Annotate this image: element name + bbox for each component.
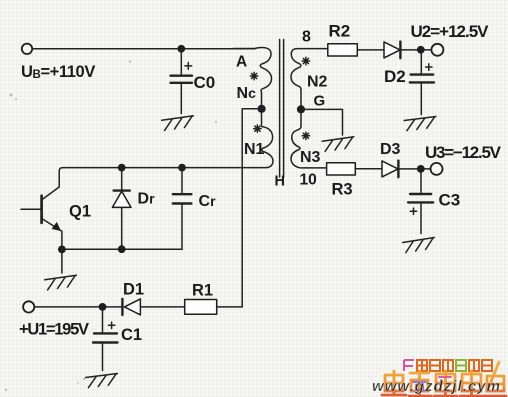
svg-text:D1: D1 (123, 281, 144, 299)
polarity mark N1 (254, 125, 261, 132)
node C1 tap (99, 303, 107, 311)
svg-text:C0: C0 (194, 73, 216, 92)
node U2 (417, 46, 425, 54)
svg-text:N2: N2 (307, 74, 328, 91)
svg-text:C1: C1 (121, 326, 142, 344)
terminal UB input (22, 44, 32, 54)
winding N1 (262, 113, 274, 168)
ground C1 (86, 374, 119, 388)
capacitor C2 (410, 54, 434, 115)
wire U1 to D1 (34, 306, 122, 308)
svg-text:U3=−12.5V: U3=−12.5V (425, 143, 502, 162)
watermark (372, 360, 506, 396)
wire emitter to ground (61, 249, 63, 273)
node secondary junction G (297, 105, 305, 113)
polarity mark N2 (302, 57, 309, 64)
wire D3 to terminal (398, 168, 430, 170)
node Cr top (178, 164, 186, 172)
capacitor C3 (408, 173, 460, 234)
ground C3 (403, 237, 436, 252)
wire top rail (32, 48, 255, 50)
svg-text:U2=+12.5V: U2=+12.5V (411, 22, 490, 41)
node primary junction (258, 105, 266, 113)
wire D1 to R1 (140, 306, 184, 308)
ground C2 (404, 117, 437, 131)
svg-text:R1: R1 (192, 282, 213, 300)
resistor R3 (327, 163, 356, 175)
resistor R2 (328, 44, 358, 56)
svg-text:H: H (275, 174, 285, 190)
ground G (322, 137, 355, 152)
wire collector rail (63, 167, 266, 169)
terminal U2 (431, 44, 443, 56)
svg-text:Q1: Q1 (69, 203, 91, 221)
diode Dr (112, 168, 155, 250)
capacitor Cr (173, 168, 216, 250)
node U3 (417, 165, 425, 173)
svg-text:10: 10 (300, 172, 317, 189)
paper speckles (5, 60, 217, 391)
wire D2 to terminal (400, 49, 431, 51)
wire bottom rail (62, 248, 182, 250)
svg-text:Cr: Cr (199, 193, 217, 210)
svg-text:A: A (236, 54, 247, 71)
ground C0 (162, 116, 195, 131)
terminal U1 input (23, 301, 34, 312)
svg-text:www.gzdzjl.cym: www.gzdzjl.cym (372, 378, 500, 395)
capacitor C1 (93, 311, 142, 371)
node emitter (58, 246, 66, 254)
capacitor C0 (171, 52, 216, 114)
resistor R1 (185, 300, 217, 315)
svg-text:R2: R2 (329, 22, 351, 41)
polarity mark Nc (250, 72, 257, 79)
svg-text:N3: N3 (300, 149, 321, 166)
winding N3 (291, 114, 327, 168)
svg-text:N1: N1 (244, 141, 265, 158)
polarity mark N3 (302, 132, 309, 139)
node Dr top (118, 164, 126, 172)
svg-text:G: G (314, 93, 326, 110)
svg-text:R3: R3 (332, 181, 353, 199)
winding Nc (233, 47, 272, 105)
winding N2 (291, 49, 328, 106)
terminal U3 (431, 163, 443, 175)
svg-text:8: 8 (302, 29, 311, 46)
wire step from dot to feedback column (242, 109, 261, 307)
wire G to ground (305, 109, 343, 135)
diode D1 (121, 299, 123, 315)
svg-text:+U1=195V: +U1=195V (19, 321, 89, 339)
svg-text:UB=+110V: UB=+110V (21, 63, 95, 81)
diode D2 (384, 42, 400, 58)
svg-text:D3: D3 (380, 141, 401, 158)
wire R3 to D3 (355, 168, 382, 170)
wire R1 to feedback column (217, 306, 243, 308)
node junction C0 tap (177, 45, 185, 53)
transistor Q1 (21, 168, 91, 246)
ground Q1 (45, 275, 78, 290)
svg-text:Nc: Nc (237, 85, 257, 102)
diode D3 (382, 161, 398, 177)
transformer core (280, 40, 284, 178)
svg-text:D2: D2 (384, 67, 406, 86)
wire R2 to D2 (357, 49, 384, 51)
node Dr bottom (118, 245, 126, 253)
svg-text:Dr: Dr (138, 191, 156, 208)
svg-text:C3: C3 (439, 191, 461, 210)
